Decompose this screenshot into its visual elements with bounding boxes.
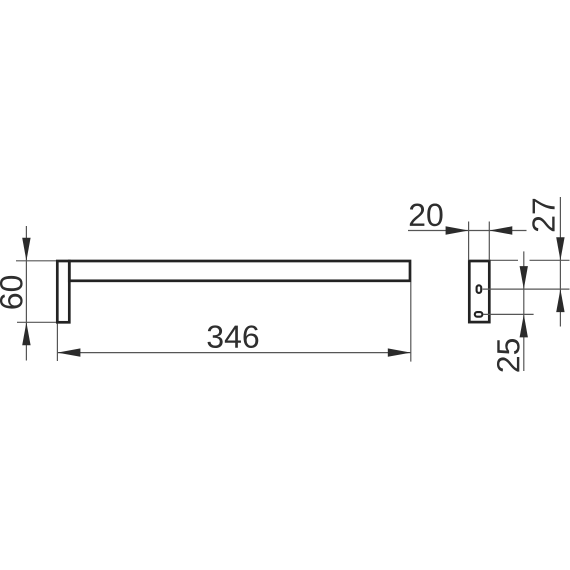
dimension 20: label text "20" — [410, 204, 443, 227]
dimension 20: right extension line — [488, 222, 490, 261]
dimension 27: dimension line — [559, 197, 561, 327]
dimension 27: plate-top extension line (right segment) — [530, 259, 570, 261]
dimension 20: right arrow (points left, tip at right extension line) — [489, 226, 512, 234]
dimension 20: dimension line — [408, 230, 527, 232]
dimension 25: lower-hole centre extension line — [483, 313, 534, 315]
dimension 60: label text "60" — [0, 276, 23, 309]
dimension 27: label text "27" — [532, 199, 554, 231]
side view: wall bracket body — [57, 261, 69, 322]
dimension 25: upper arrow (points down) — [520, 266, 528, 289]
dimension 25: label text "25" — [497, 339, 520, 372]
dimension 25: lower arrow (points up) — [520, 314, 528, 337]
dimension 27: plate-top extension line (left segment) — [491, 259, 519, 261]
dimension 346: left arrow (points left) — [57, 348, 80, 356]
dimension 346: label text "346" — [208, 325, 259, 348]
rear view: lower slotted hole (horizontal slot) — [475, 312, 483, 317]
dimension 346: right extension line — [410, 282, 412, 362]
side view: towel bar body — [69, 261, 410, 281]
dimension 60: bottom extension line — [17, 321, 56, 323]
dimension 346: left extension line — [56, 324, 58, 362]
dimension 27: upper-hole centre extension line — [483, 288, 570, 290]
dimension 60: top extension line — [16, 260, 56, 262]
dimension 25: dimension line — [523, 251, 525, 371]
dimension 60: lower arrow (points up) — [22, 322, 30, 345]
rear view: upper slotted hole (vertical slot) — [477, 285, 482, 293]
dimension 20: left arrow (points right, tip at left extension line) — [446, 226, 469, 234]
rear view: mounting plate body — [469, 261, 489, 322]
dimension 27: upper arrow (points down) — [556, 237, 564, 260]
dimension 346: dimension line — [57, 352, 410, 354]
dimension 346: right arrow (points right) — [388, 348, 411, 356]
dimension 20: left extension line — [468, 222, 470, 261]
dimension 60: dimension line — [25, 226, 27, 361]
dimension 27: lower arrow (points up) — [556, 289, 564, 312]
dimension 60: upper arrow (points down) — [22, 238, 30, 261]
